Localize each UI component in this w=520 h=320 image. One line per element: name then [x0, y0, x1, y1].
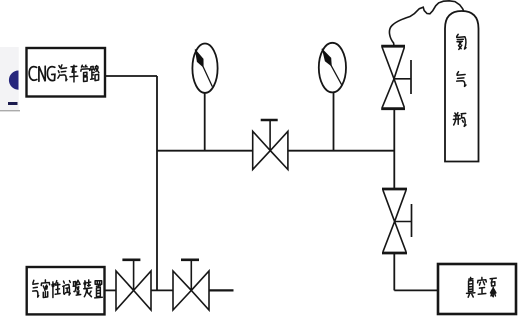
valve V1 (main line globe valve)	[253, 131, 288, 169]
wire: main riser x=157	[156, 76, 158, 290]
valve V2 (nitrogen bottle valve)	[381, 45, 405, 48]
nitrogen bottle 氮气瓶	[445, 11, 479, 162]
horizontal rule fragment	[0, 110, 20, 111]
box: 气密性试验装置	[27, 267, 105, 314]
background slide sliver band (left edge)	[0, 47, 19, 110]
label text 气密性试验装置	[33, 280, 39, 297]
wire: main horizontal left of valve	[157, 150, 253, 152]
wire: valve to vacuum pump elbow	[393, 253, 395, 290]
wire: gauge 1 stem	[204, 93, 206, 151]
wire: between right valves	[393, 109, 395, 189]
bullet point (navy half-disc)	[9, 71, 19, 90]
label text 汽车管路	[58, 65, 67, 81]
text dash fragment	[8, 102, 18, 105]
wire: squiggle hose to nitrogen bottle	[389, 1, 463, 46]
wire: gauge 2 stem	[333, 92, 335, 150]
box: 真空泵 vacuum pump	[438, 264, 516, 314]
box: CNG汽车管路	[27, 48, 106, 97]
label text 真空泵	[467, 277, 475, 297]
valve V4 (test device valve)	[116, 271, 151, 310]
wire: bottom line segment 1	[105, 289, 117, 291]
pressure gauge 2	[319, 43, 346, 93]
label text CNG (latin)	[29, 66, 55, 81]
wire: bottom line segment 2	[151, 289, 173, 291]
pressure gauge 1	[192, 43, 217, 92]
label text 氮气瓶	[457, 34, 466, 49]
valve V3 (vacuum line valve)	[382, 188, 407, 191]
wire: main horizontal right of valve	[288, 150, 394, 152]
wire: bottom line segment 3 (open stub)	[209, 289, 234, 291]
wire: CNG box to junction riser	[106, 75, 157, 77]
valve V5 (drain valve)	[173, 271, 209, 310]
